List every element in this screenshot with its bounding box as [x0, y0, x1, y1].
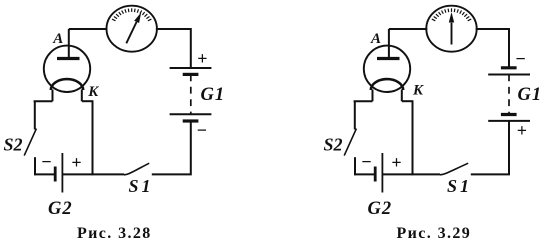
- svg-text:−: −: [361, 152, 371, 172]
- tube cathode arc: [371, 79, 403, 90]
- wire from meter to G1 top corner: [476, 29, 509, 67]
- switch S2 lower contact stub: [354, 157, 356, 175]
- battery G2 negative short plate: [54, 167, 57, 182]
- wire from meter to G1 top corner: [156, 29, 191, 68]
- tube filament lead left inner: [372, 90, 374, 102]
- svg-text:+: +: [517, 121, 527, 141]
- svg-text:G1: G1: [518, 85, 543, 105]
- svg-text:−: −: [197, 120, 207, 140]
- tube cathode arc: [51, 79, 83, 90]
- galvanometer PA1 body: [107, 6, 157, 52]
- svg-text:+: +: [71, 153, 81, 173]
- wire top from anode to meter: [69, 28, 108, 30]
- svg-text:−: −: [516, 49, 526, 69]
- wire left outer lead down to S2: [34, 101, 36, 129]
- tube anode plate: [377, 57, 400, 60]
- svg-text:S2: S2: [324, 135, 343, 155]
- battery G2 positive long plate: [61, 153, 63, 193]
- switch S2 blade: [24, 129, 36, 156]
- tube filament lead right inner: [401, 90, 403, 102]
- switch S2 blade: [344, 129, 356, 156]
- switch S1 blade: [124, 163, 149, 175]
- svg-text:S1: S1: [129, 176, 154, 196]
- meter scale ticks: [432, 8, 471, 20]
- wire anode lead: [68, 29, 70, 59]
- svg-text:A: A: [370, 31, 381, 47]
- meter needle (vertical): [451, 23, 453, 45]
- svg-text:G2: G2: [48, 199, 73, 219]
- tube filament lead left inner: [52, 90, 54, 102]
- wire bottom left to G2: [354, 173, 374, 175]
- tube base step left: [34, 100, 53, 102]
- battery G1 dashed link wire: [190, 74, 192, 114]
- vacuum tube VL2 envelope: [364, 46, 410, 92]
- battery G1 cell2 long plate (+): [488, 120, 530, 122]
- switch S1 blade: [440, 163, 468, 175]
- battery G1 cell2 short plate: [501, 113, 517, 116]
- battery G1 cell1 long plate: [488, 74, 530, 76]
- svg-text:A: A: [52, 31, 63, 47]
- wire G2 to S1 with node at tube lead: [383, 173, 440, 175]
- wire right outer lead down to bottom node: [412, 101, 414, 175]
- svg-text:+: +: [391, 153, 401, 173]
- wire S1 to G1 bottom corner: [471, 121, 509, 174]
- wire top from anode to meter: [389, 28, 427, 30]
- wire bottom left to G2: [34, 173, 54, 175]
- svg-text:S1: S1: [447, 176, 472, 196]
- tube base step right: [82, 100, 94, 102]
- svg-text:Рис. 3.29: Рис. 3.29: [397, 225, 472, 242]
- vacuum tube VL1 envelope: [44, 46, 90, 92]
- svg-text:G2: G2: [368, 199, 393, 219]
- meter scale ticks: [112, 8, 151, 20]
- tube base step right: [402, 100, 414, 102]
- svg-text:−: −: [41, 152, 51, 172]
- battery G1 cell2 short plate (-): [183, 119, 199, 122]
- svg-text:+: +: [197, 49, 207, 69]
- battery G2 positive long plate: [381, 153, 383, 193]
- tube anode plate: [57, 57, 80, 60]
- battery G1 cell1 long plate (+): [170, 67, 212, 69]
- tube base step left: [354, 100, 373, 102]
- meter needle: [126, 22, 136, 43]
- wire right outer lead down to bottom node: [92, 101, 94, 175]
- tube filament lead right inner: [81, 90, 83, 102]
- svg-text:K: K: [412, 83, 424, 99]
- svg-text:G1: G1: [201, 85, 226, 105]
- wire left outer lead down to S2: [354, 101, 356, 129]
- wire G2 to S1 with node at tube lead: [63, 173, 124, 175]
- wire S1 to G1 bottom corner: [152, 122, 191, 175]
- battery G1 dashed link wire: [508, 75, 510, 115]
- battery G2 negative short plate: [374, 167, 377, 182]
- battery G1 cell1 short plate (-): [501, 66, 517, 69]
- switch S2 lower contact stub: [34, 157, 36, 175]
- battery G1 cell2 long plate: [170, 113, 212, 115]
- wire anode lead: [388, 29, 390, 59]
- svg-text:S2: S2: [4, 135, 23, 155]
- galvanometer PA2 body: [426, 6, 476, 52]
- battery G1 cell1 short plate: [183, 73, 199, 76]
- svg-text:K: K: [87, 84, 99, 100]
- svg-text:Рис. 3.28: Рис. 3.28: [77, 225, 152, 242]
